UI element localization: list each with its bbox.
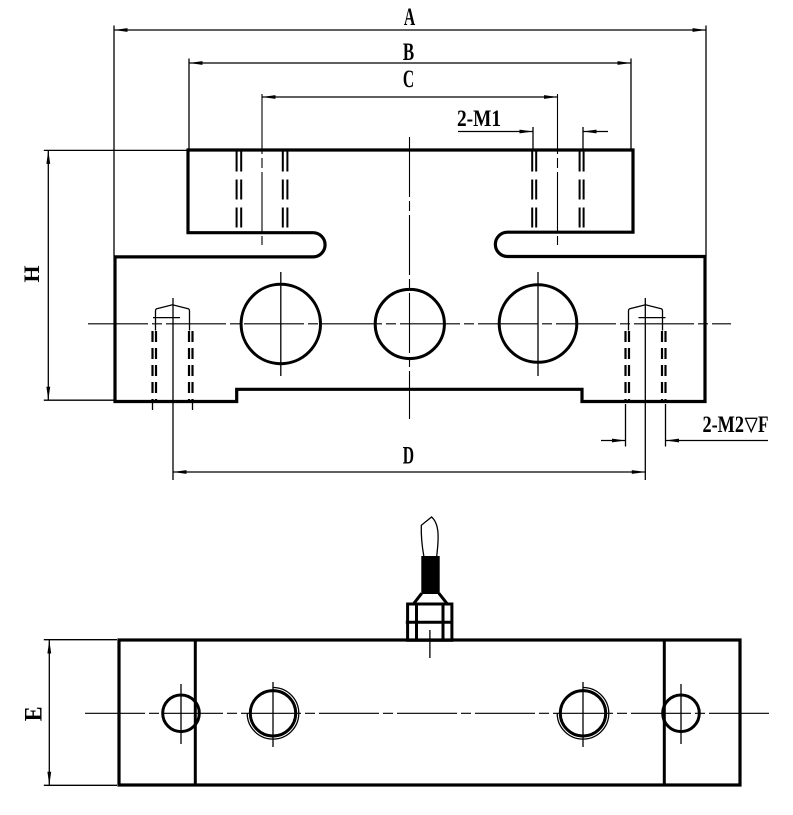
right thread hole centerline (557, 94, 559, 245)
gland inner left vertical (415, 604, 418, 640)
upper view middle hole circle (375, 289, 444, 358)
lower view big right circle (560, 691, 605, 736)
dimension 2-M1 extension lines (532, 127, 534, 150)
dimension H line (47, 150, 49, 400)
gland trapezoid right side (439, 593, 448, 604)
gland centerline (429, 630, 431, 658)
svg-text:A: A (404, 4, 415, 31)
gland horizontal band (406, 621, 452, 624)
right thread hole 2-M1 dashed lines (532, 152, 583, 231)
svg-text:2-M1: 2-M1 (457, 106, 501, 131)
lower view right divider (663, 640, 666, 785)
dimension 2-M2 lines (601, 440, 626, 442)
dimension H extension lines (44, 149, 187, 151)
left stud cap (156, 305, 190, 331)
left stud 2-M2 hidden lines (153, 331, 193, 401)
svg-text:B: B (403, 39, 414, 66)
depth symbol (745, 418, 758, 431)
dimension D line (173, 471, 645, 473)
lower view big left thread arc (247, 688, 299, 740)
dimension A extension lines (113, 26, 115, 256)
lower view big left circle (250, 691, 295, 736)
dimension E line (48, 640, 50, 785)
dimension 2-M2 extension lines (625, 404, 627, 447)
cable curve (421, 517, 438, 557)
big right circle centerline (582, 682, 584, 747)
lower view horizontal centerline (85, 712, 770, 714)
horizontal centerline upper view (88, 323, 731, 325)
cable boot black stem (421, 556, 439, 594)
lower view body rectangle (119, 640, 740, 785)
left thread hole 2-M1 dashed lines (237, 152, 288, 232)
lower view big right thread arc (557, 688, 609, 740)
left stud horizontal line (153, 317, 180, 319)
left stud bottom ticks (152, 403, 154, 410)
right stud horizontal line (639, 317, 666, 319)
svg-text:E: E (21, 706, 48, 721)
lower view small left circle (163, 695, 200, 732)
svg-text:2-M2: 2-M2 (703, 412, 745, 438)
dimension B extension lines (188, 59, 190, 150)
left thread hole centerline (261, 94, 263, 245)
gland inner right vertical (442, 604, 445, 640)
upper view body outline (115, 150, 705, 402)
upper view left hole circle (241, 284, 320, 363)
dimension C line (262, 96, 558, 98)
lower view left divider (194, 640, 197, 785)
small left circle centerline (180, 684, 182, 744)
dimension 2-M1 lines (458, 131, 533, 133)
right circle vertical centerline (537, 272, 539, 376)
gland trapezoid left side (413, 593, 422, 604)
dimension E extension lines (44, 639, 117, 641)
big left circle centerline (272, 682, 274, 747)
right stud cap (629, 305, 663, 331)
right stud centerline / D extension (644, 298, 646, 480)
vertical centerline upper view (409, 137, 411, 419)
svg-text:C: C (403, 66, 414, 93)
left circle vertical centerline (280, 272, 282, 376)
left stud centerline / D extension (172, 298, 174, 480)
svg-text:H: H (19, 266, 44, 283)
dimension A line (114, 29, 706, 31)
lower view small right circle (663, 695, 700, 732)
dimension B line (189, 62, 631, 64)
cable gland body (408, 604, 452, 640)
svg-text:F: F (758, 412, 769, 438)
right stud 2-M2 hidden lines (626, 331, 666, 401)
small right circle centerline (680, 684, 682, 744)
svg-text:D: D (403, 442, 414, 469)
upper view right hole circle (499, 285, 577, 363)
